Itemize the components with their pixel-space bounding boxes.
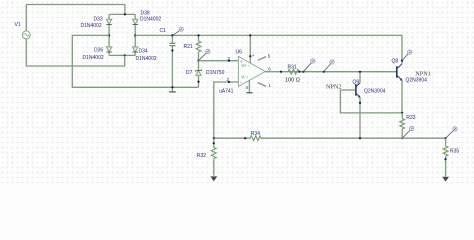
node op-amp pin7 [249,55,251,57]
node op-amp supply rail junction [249,34,251,36]
node R33 top junction [401,112,403,114]
svg-text:D36: D36 [94,47,103,53]
svg-text:D1N4002: D1N4002 [81,23,102,29]
node C1 top [171,34,173,36]
ground arrow below R35 [442,177,449,182]
node R35 bottom pin [444,158,446,160]
wire V1 top vertical [25,5,27,31]
resistor R35 [443,138,448,176]
wire bridge top drop [124,5,126,15]
svg-text:U6: U6 [236,50,243,56]
svg-text:D1N4002: D1N4002 [136,56,157,62]
connector bubble at C1 top [172,27,183,35]
node bottom rail left corner [213,137,215,139]
svg-text:5: 5 [268,54,271,59]
svg-text:R32: R32 [197,153,206,159]
svg-text:V1: V1 [15,22,21,28]
svg-text:Q8: Q8 [392,59,399,65]
svg-text:1: 1 [268,83,271,88]
wire output rail to NPN1 base [281,71,397,73]
wire Q9 base loop to R33 top [340,90,402,113]
svg-text:R35: R35 [450,148,459,154]
svg-text:R33: R33 [406,115,415,121]
wire op-amp pin 2 to bottom rail [214,82,239,138]
resistor R31 [288,69,299,74]
svg-text:100 Ω: 100 Ω [285,77,300,83]
node R32 top [213,142,215,144]
wire bottom rail right part [261,137,446,139]
wire bridge bottom rail [109,54,135,56]
wire NPN1 emitter down [401,80,403,113]
svg-text:6: 6 [268,67,271,72]
ground bar under C1 [169,87,176,92]
node R21 bottom junction [197,60,199,62]
diode D38 [133,14,138,35]
zener diode D7 [195,61,202,88]
node bridge bottom [124,54,126,56]
node D7 bottom [197,81,199,83]
svg-text:R31: R31 [288,64,297,70]
wire Q9 emitter down to bottom rail [359,97,361,138]
node output junction [280,71,282,73]
connector bubble at NPN1 collector [402,50,412,60]
capacitor C1 [169,35,175,87]
node bridge mid-right [134,34,136,36]
svg-text:Q2N3904: Q2N3904 [364,89,386,95]
svg-text:D33: D33 [94,16,103,22]
svg-text:R34: R34 [251,131,260,137]
svg-text:V- ›: V- › [241,75,248,80]
node op-amp pin2 [228,81,230,83]
node C1 ground junction [171,86,173,88]
diode D36 [106,35,111,55]
node R33 bottom [401,137,403,139]
node Q9 emitter on bottom rail [359,137,361,139]
svg-text:D34: D34 [139,49,148,55]
diode D34 [133,35,138,55]
svg-text:V+ ›: V+ › [242,63,251,68]
node R34 left [244,137,246,139]
svg-text:NPN2: NPN2 [326,84,341,91]
resistor R32 [212,138,217,176]
svg-text:C1: C1 [160,28,167,34]
node bridge top [124,13,126,15]
connector bubble on rail 2 [323,60,334,73]
connector bubble at R21 bottom [199,49,210,60]
svg-text:+: + [252,53,255,58]
svg-text:D1N4002: D1N4002 [83,55,104,61]
ground arrow below R32 [210,176,217,181]
node op-amp pin3 [228,60,230,62]
resistor R21 [196,35,201,60]
svg-text:4: 4 [245,85,248,90]
wire bottom rail left part [214,137,250,139]
resistor R33 [400,113,405,138]
node bottom rail right end [445,137,447,139]
wire V1 bottom return [26,39,124,66]
voltage source V1 [22,31,30,39]
wire Q9 collector to rail [359,72,361,83]
node bridge mid-left [108,34,110,36]
resistor R34 [250,136,261,141]
wire main positive rail [135,35,402,64]
svg-text:Q2N3904: Q2N3904 [406,77,428,83]
svg-text:Q9: Q9 [353,79,360,85]
svg-text:D7: D7 [186,70,193,76]
node Q9 collector on rail [359,71,361,73]
wire top rail from V1 to bridge top [26,4,125,6]
node R31 right [298,71,300,73]
wire bridge top rail [109,13,135,15]
op-amp U6 uA741 [238,35,281,92]
connector bubble on rail 1 [302,59,315,73]
svg-text:uA741: uA741 [219,88,234,94]
node C1 bottom pin [171,49,173,51]
svg-text:R21: R21 [184,44,193,50]
transistor NPN1 Q2N3904 [397,64,403,81]
transistor Q9 Q2N3904 [340,83,360,98]
wire ground net from bridge mid-left down and right to D7 [72,35,198,87]
svg-text:D1N750: D1N750 [206,70,225,76]
svg-text:D1N4002: D1N4002 [140,17,161,23]
node NPN1 collector [401,60,403,62]
wire R21 junction to op-amp pin 3 [199,60,239,62]
connector bubble at bottom rail right end [446,127,458,138]
node R21 top [197,34,199,36]
connector bubble at R33 bottom [402,127,414,139]
diode D33 [106,14,111,35]
node Q9 emitter pin [359,102,361,104]
